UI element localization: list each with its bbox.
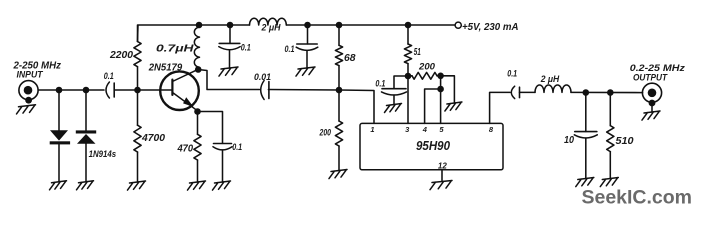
svg-text:470: 470	[177, 144, 194, 155]
wire node to R8	[609, 93, 611, 179]
node rail-C4	[304, 22, 311, 29]
wire top rail	[138, 25, 456, 42]
wire rail to R5	[407, 25, 409, 76]
wire C2 to ground	[222, 150, 224, 182]
wire node A down to R2	[137, 90, 139, 182]
pin 8 label	[489, 125, 494, 134]
svg-text:0.1: 0.1	[232, 142, 242, 152]
svg-text:200: 200	[418, 61, 435, 71]
ground right of pin5	[445, 102, 462, 111]
svg-text:1: 1	[370, 125, 374, 134]
node E (pins 4-5 tie)	[437, 86, 444, 93]
connector J2 output jack	[642, 83, 661, 106]
inductor L1 0.7uH	[194, 27, 199, 67]
node input-diode1	[56, 87, 63, 94]
label Q1 2N5179	[148, 63, 183, 74]
label C1 0.1	[104, 71, 114, 81]
ground below C6	[385, 104, 402, 113]
svg-text:4: 4	[422, 125, 428, 134]
svg-text:INPUT: INPUT	[17, 68, 44, 79]
svg-text:1N914s: 1N914s	[89, 148, 117, 159]
svg-text:+5V, 230 mA: +5V, 230 mA	[462, 22, 519, 33]
wire diode D2 lead	[85, 90, 87, 182]
wire emitter to C2	[198, 112, 223, 144]
wire emitter down to R3	[197, 112, 199, 182]
resistor R6 200	[335, 121, 342, 146]
svg-text:0.1: 0.1	[285, 44, 295, 54]
capacitor C8 10	[574, 132, 597, 138]
node rail-C3	[227, 22, 234, 29]
svg-text:2 μH: 2 μH	[261, 22, 281, 33]
svg-text:0.1: 0.1	[104, 71, 114, 81]
ground below R2	[128, 181, 146, 190]
svg-text:2N5179: 2N5179	[148, 63, 183, 74]
svg-text:10: 10	[564, 135, 574, 146]
IC U1 95H90 body	[360, 123, 503, 169]
label R4 68	[344, 53, 356, 64]
node B (pin1 node)	[336, 87, 343, 94]
label C7 0.1	[507, 69, 517, 79]
node rail-L1	[196, 22, 203, 29]
label 2-250 MHz INPUT	[13, 61, 62, 80]
node emitter	[194, 108, 201, 115]
wire node A up to R1	[137, 25, 139, 90]
wire node D to node E	[440, 76, 442, 89]
node C (pin3 node)	[405, 73, 412, 80]
svg-text:2 μH: 2 μH	[540, 73, 560, 84]
svg-text:0.1: 0.1	[375, 78, 385, 88]
label 1N914s	[89, 148, 117, 159]
ground below D2	[77, 181, 94, 190]
label C5 0.01	[254, 72, 271, 83]
label R1 2200	[109, 50, 133, 61]
svg-text:68: 68	[344, 53, 356, 64]
wire diode D1 lead	[58, 90, 60, 182]
capacitor C4 0.1 rail bypass	[296, 44, 318, 50]
label 0.2-25 MHz OUTPUT	[630, 63, 685, 82]
resistor R7 200 (horizontal)	[408, 72, 441, 79]
wire collector elbow	[198, 70, 259, 90]
capacitor C2 0.1 emitter bypass	[213, 144, 232, 150]
connector J1 input jack	[19, 81, 38, 104]
ground below R8	[600, 178, 618, 187]
wire C1 to node A	[114, 89, 137, 91]
wire C8 to ground	[585, 138, 587, 178]
svg-text:12: 12	[438, 161, 447, 170]
wire pin 8 up	[490, 92, 510, 123]
node output-C8	[583, 89, 590, 96]
resistor R1 2200	[134, 42, 141, 67]
node rail-R5	[405, 22, 412, 29]
svg-text:0.1: 0.1	[241, 42, 251, 52]
inductor L2 2uH (rail)	[250, 18, 287, 25]
capacitor C6 0.1 bias bypass	[382, 89, 407, 95]
node output-R8	[607, 89, 614, 96]
wire node B to pin 1	[339, 90, 374, 123]
svg-text:510: 510	[616, 136, 634, 147]
wire input run	[38, 89, 104, 91]
wire C4 to ground	[306, 51, 308, 68]
wire rail to C3	[229, 25, 231, 43]
watermark SeekIC.com	[582, 187, 693, 209]
svg-text:200: 200	[319, 128, 331, 138]
label C4 0.1	[285, 44, 295, 54]
wire node to C8	[585, 93, 587, 132]
wire C3 to ground	[229, 50, 231, 68]
resistor R5 51	[404, 44, 411, 64]
wire J2 to ground	[651, 103, 653, 112]
ground below C2	[213, 181, 231, 190]
ground below R6	[329, 170, 347, 179]
label U1 95H90	[416, 139, 450, 153]
wire node D to ground	[441, 76, 455, 103]
pin 3 label	[405, 125, 410, 134]
resistor R8 510	[607, 126, 614, 152]
ground below C8	[576, 178, 594, 187]
label R2 4700	[141, 133, 165, 144]
svg-text:0.01: 0.01	[254, 72, 271, 83]
capacitor C7 0.1 output coupling	[511, 86, 519, 98]
ground below R3	[188, 181, 206, 190]
label L2 2uH	[261, 22, 281, 33]
pin 1 label	[370, 125, 374, 134]
ground below pin 12	[430, 181, 452, 190]
terminal +5V	[455, 22, 461, 28]
resistor R4 68	[335, 45, 342, 65]
capacitor C5 0.01 coupling	[261, 81, 269, 100]
ground below C3	[219, 67, 238, 76]
svg-text:4700: 4700	[141, 133, 165, 144]
wire pin 12 to ground	[441, 170, 443, 181]
wire node E to pin 4	[425, 89, 441, 123]
label R3 470	[177, 144, 194, 155]
resistor R2 4700	[134, 125, 141, 152]
wire rail to C4	[307, 25, 309, 44]
label C2 0.1	[232, 142, 242, 152]
wire node E to pin 5	[440, 89, 442, 123]
transistor Q1 2N5179	[160, 69, 199, 111]
wire node C to C6	[394, 76, 408, 89]
pin 4 label	[422, 125, 428, 134]
svg-text:0.1: 0.1	[507, 69, 517, 79]
label +5V 230 mA	[462, 22, 519, 33]
svg-text:95H90: 95H90	[416, 139, 450, 153]
label R8 510	[616, 136, 634, 147]
wire node A to base	[138, 89, 172, 91]
diode D2 1N914 (cathode up)	[76, 130, 96, 143]
wire L3 to output	[571, 91, 643, 93]
svg-text:0.7μH: 0.7μH	[156, 44, 194, 55]
wire node B down to R6	[338, 90, 340, 170]
pin 5 label	[439, 125, 444, 134]
ground below C4	[296, 67, 315, 76]
svg-text:SeekIC.com: SeekIC.com	[582, 187, 693, 209]
label R5 51	[414, 47, 421, 58]
ground below D1	[50, 181, 67, 190]
diode D1 1N914 (anode up)	[50, 130, 70, 144]
label C6 0.1	[375, 78, 385, 88]
node rail-R4	[336, 22, 343, 29]
wire rail to R4	[338, 25, 340, 90]
label L3 2uH	[540, 73, 560, 84]
label R6 200	[319, 128, 331, 138]
svg-text:OUTPUT: OUTPUT	[633, 71, 668, 82]
node A (base node)	[134, 87, 141, 94]
node D (R7 right)	[437, 73, 444, 80]
wire C5 to node B	[268, 89, 339, 92]
node collector	[195, 66, 202, 73]
resistor R3 470	[194, 134, 201, 160]
label L1 0.7uH	[156, 44, 194, 55]
capacitor C3 0.1 rail bypass	[219, 43, 240, 49]
node input-diode2	[83, 87, 90, 94]
ground below J1	[17, 105, 36, 114]
wire C6 to ground	[393, 95, 395, 104]
label C8 10	[564, 135, 574, 146]
label C3 0.1	[241, 42, 251, 52]
inductor L3 2uH output	[535, 85, 571, 92]
svg-text:51: 51	[414, 47, 421, 58]
label R7 200	[418, 61, 435, 71]
wire node C to pin 3	[407, 76, 409, 123]
ground below J2	[642, 111, 660, 120]
pin 12 label	[438, 161, 447, 170]
wire C7 to L3	[520, 91, 536, 93]
capacitor C1 0.1 input coupling	[106, 82, 114, 98]
svg-text:2200: 2200	[109, 50, 133, 61]
